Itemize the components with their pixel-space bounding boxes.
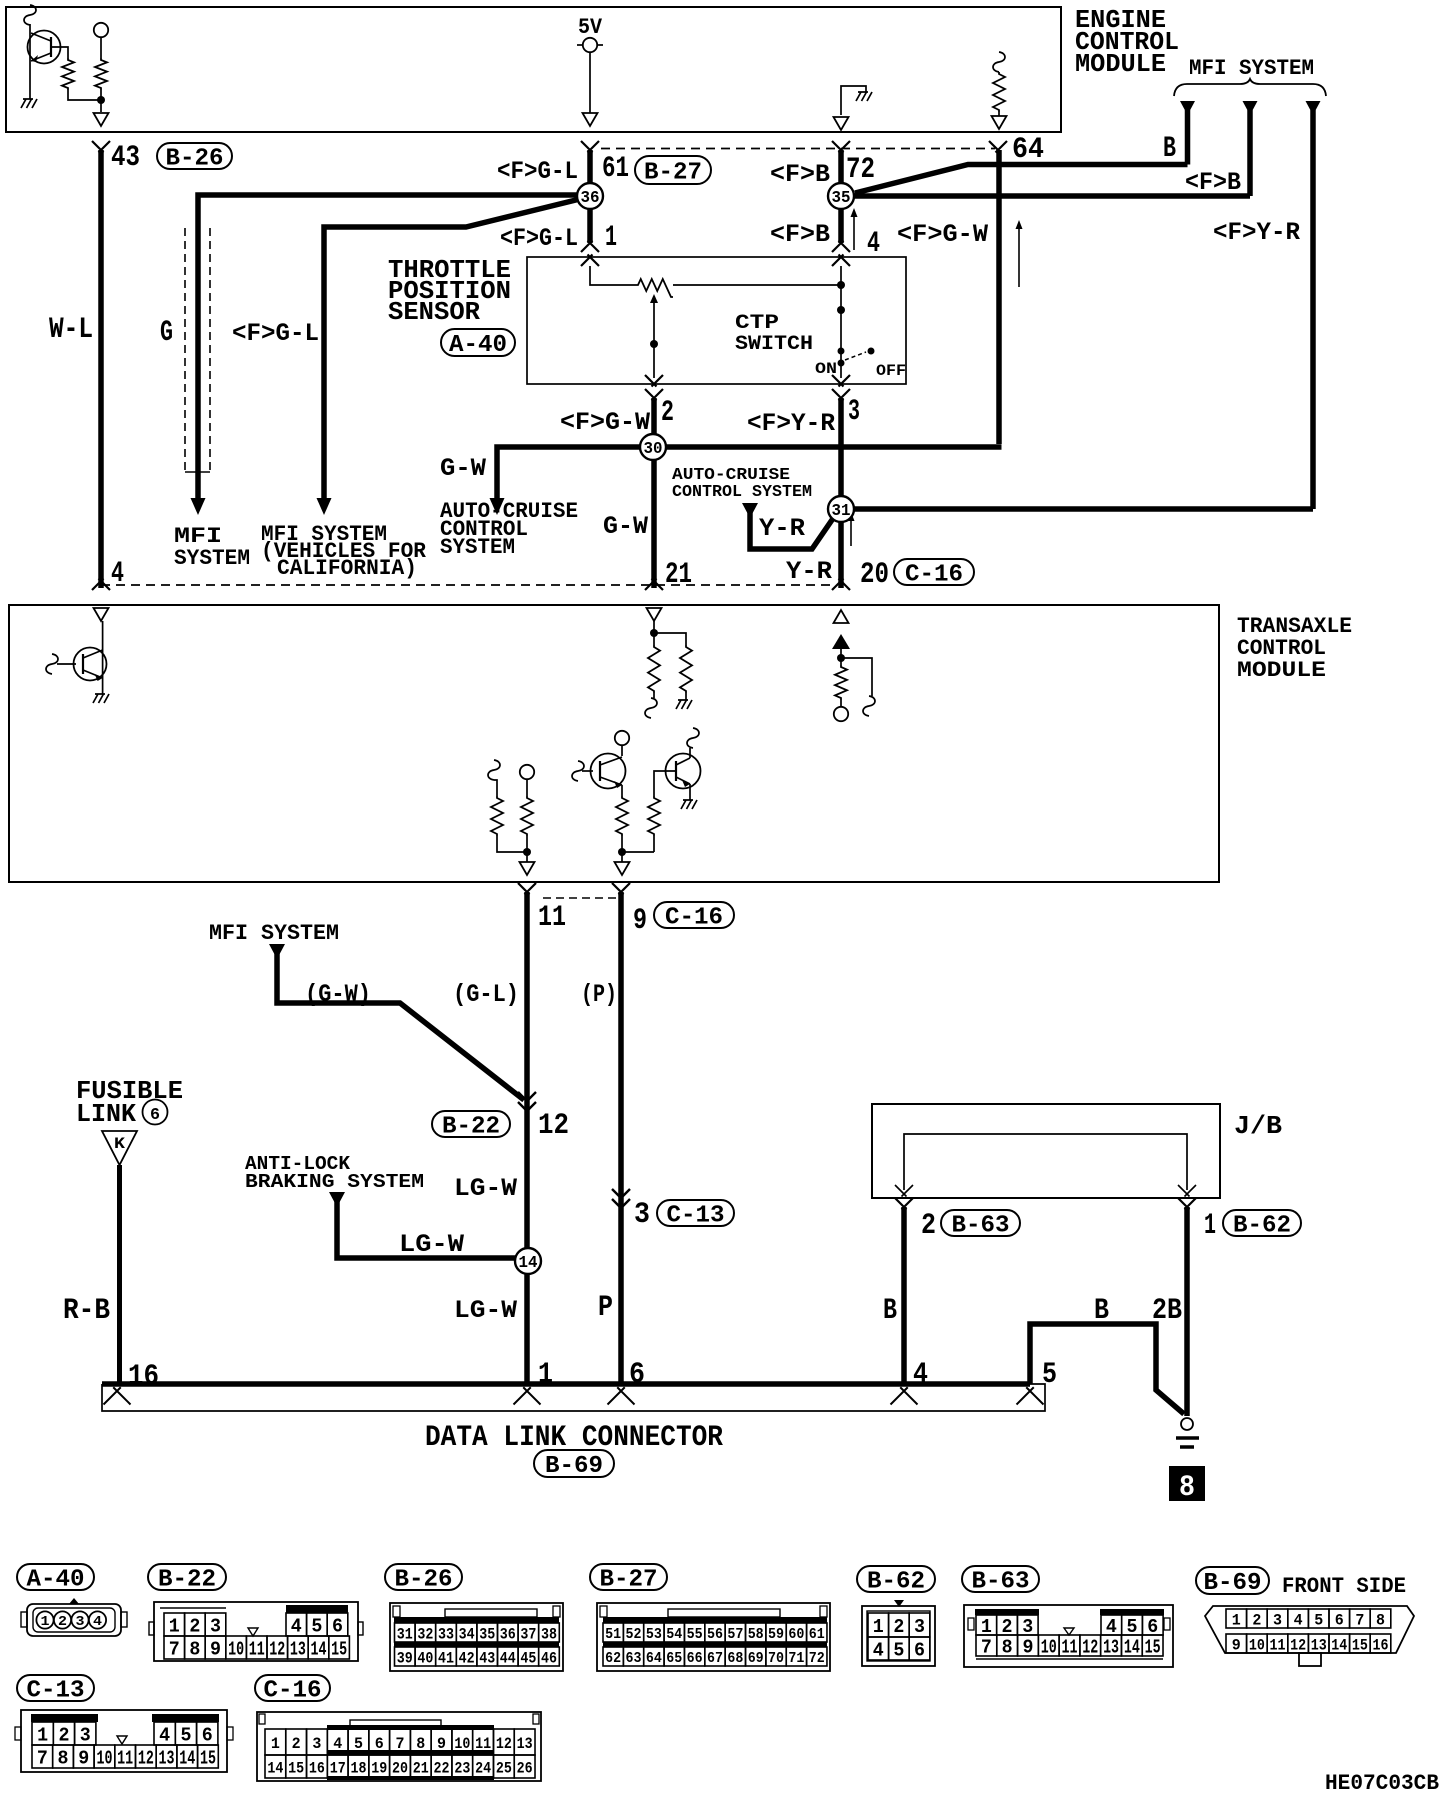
- svg-text:B-26: B-26: [166, 146, 224, 173]
- wire (P) pin 9 to DLC pin 6: [618, 892, 624, 1384]
- svg-text:14: 14: [267, 1759, 283, 1777]
- svg-text:24: 24: [475, 1759, 491, 1777]
- connector label B-26: [385, 1564, 462, 1594]
- svg-text:B-26: B-26: [395, 1567, 453, 1594]
- svg-text:36: 36: [500, 1625, 516, 1643]
- svg-text:1: 1: [37, 1724, 48, 1746]
- DLC pin 16 foot: [104, 1387, 131, 1404]
- svg-text:4: 4: [867, 227, 880, 261]
- auto-cruise control system label (small, junction31): [672, 466, 812, 502]
- pin 64 internal arrow: [992, 116, 1007, 129]
- svg-text:5: 5: [180, 1724, 191, 1746]
- connector C-13 pinout: [15, 1710, 233, 1772]
- svg-text:13: 13: [1311, 1636, 1327, 1654]
- transistor Q3 with terminal (TCM pin 9): [572, 731, 654, 862]
- resistor R3 (pin 64): [993, 52, 1005, 116]
- dashed connector boundary line (C-16 row): [101, 584, 836, 586]
- svg-text:68: 68: [727, 1650, 743, 1667]
- resistor pair with terminal (TCM pin 11): [488, 760, 534, 862]
- 5V supply: [577, 15, 603, 113]
- svg-text:4: 4: [93, 1614, 102, 1630]
- resistor R2 with terminal: [94, 23, 108, 112]
- svg-text:45: 45: [520, 1649, 536, 1667]
- svg-text:31: 31: [832, 502, 851, 521]
- svg-text:9: 9: [633, 904, 647, 938]
- direction arrow (pin4 wire): [853, 212, 855, 250]
- svg-text:5: 5: [1314, 1611, 1323, 1629]
- svg-text:<F>Y-R: <F>Y-R: [1213, 218, 1300, 247]
- connector C-16 pinout: [257, 1712, 541, 1781]
- MFI arrow 3 ((F)Y-R wire): [1306, 101, 1321, 509]
- MFI arrow 2 ((F)B wire): [1243, 101, 1258, 196]
- connector B-69 pinout (trapezoid): [1205, 1606, 1414, 1666]
- svg-text:9: 9: [78, 1747, 89, 1769]
- svg-text:7: 7: [169, 1638, 180, 1660]
- svg-text:11: 11: [1270, 1636, 1286, 1654]
- svg-text:13: 13: [517, 1735, 533, 1753]
- svg-text:11: 11: [249, 1638, 265, 1660]
- svg-text:3: 3: [210, 1615, 221, 1637]
- ECM internal ground (pin 72): [841, 86, 872, 115]
- svg-text:B: B: [1163, 132, 1176, 166]
- ABS arrow (LG-W branch): [329, 1192, 516, 1258]
- CTP SWITCH label: [735, 312, 813, 356]
- connector B-22 pinout: [149, 1602, 363, 1661]
- ground (pin21 resistor): [676, 700, 692, 709]
- connector label C-13: [17, 1675, 94, 1705]
- svg-text:2B: 2B: [1152, 1294, 1182, 1328]
- svg-text:61: 61: [809, 1626, 825, 1643]
- TPS label: [388, 255, 511, 327]
- svg-text:B-27: B-27: [644, 160, 702, 187]
- svg-text:7: 7: [981, 1636, 992, 1658]
- svg-text:7: 7: [37, 1747, 48, 1769]
- engine control module box: [6, 7, 1061, 132]
- svg-text:3: 3: [80, 1724, 91, 1746]
- svg-text:15: 15: [200, 1747, 216, 1769]
- wire B (MFI arrow 1 to junction 35): [855, 165, 1188, 194]
- svg-text:11: 11: [117, 1747, 133, 1769]
- junction 14: [515, 1248, 541, 1274]
- MFI SYSTEM destination label: [174, 524, 250, 571]
- svg-text:12: 12: [1290, 1636, 1306, 1654]
- connector B-26 pinout: [390, 1603, 563, 1671]
- pin 43 internal arrow: [94, 113, 109, 126]
- connector code C-16 (pin20): [894, 559, 974, 589]
- svg-text:14: 14: [1331, 1636, 1347, 1654]
- svg-text:31: 31: [397, 1625, 413, 1643]
- svg-text:14: 14: [519, 1254, 538, 1273]
- svg-text:SYSTEM: SYSTEM: [440, 535, 515, 560]
- ground (Q1 emitter): [21, 99, 37, 108]
- svg-text:W-L: W-L: [49, 313, 93, 347]
- svg-text:15: 15: [1145, 1636, 1161, 1658]
- direction arrow (pin64 wire): [1018, 224, 1020, 287]
- svg-text:62: 62: [605, 1650, 621, 1667]
- svg-text:1: 1: [873, 1616, 884, 1638]
- junction 30: [640, 434, 666, 460]
- pin 3 exit feet: [832, 375, 850, 387]
- pin 72: [832, 141, 875, 187]
- connector code B-69 (DLC): [534, 1450, 614, 1480]
- svg-text:4: 4: [159, 1724, 170, 1746]
- svg-text:3: 3: [312, 1735, 321, 1753]
- svg-text:52: 52: [626, 1626, 642, 1643]
- svg-text:30: 30: [644, 440, 663, 459]
- svg-text:12: 12: [138, 1747, 154, 1769]
- svg-text:SWITCH: SWITCH: [735, 333, 813, 356]
- svg-text:HE07C03CB: HE07C03CB: [1325, 1771, 1439, 1794]
- pin 43: [92, 141, 140, 175]
- ground reference number 8: [1169, 1466, 1205, 1505]
- svg-text:3: 3: [848, 395, 860, 429]
- pin 9 foot: [612, 883, 630, 895]
- connector B-63 pinout: [964, 1605, 1173, 1667]
- svg-text:<F>Y-R: <F>Y-R: [747, 409, 835, 438]
- TPS wiper arrow: [650, 294, 658, 378]
- svg-text:15: 15: [331, 1638, 347, 1660]
- connector B-27 pinout: [597, 1603, 830, 1671]
- arrow (F)G-L to MFI SYSTEM california: [317, 498, 332, 515]
- svg-text:P: P: [598, 1291, 613, 1325]
- wire (F)G-L (junction 36 diagonal to MFI california): [324, 198, 584, 498]
- resistor + terminal (TCM pin 20): [834, 649, 875, 721]
- svg-text:37: 37: [520, 1625, 536, 1643]
- svg-text:26: 26: [517, 1759, 533, 1777]
- svg-text:42: 42: [459, 1649, 475, 1667]
- Y-R arrow from auto-cruise control system: [742, 503, 834, 549]
- svg-text:1: 1: [538, 1358, 553, 1392]
- svg-text:8: 8: [1179, 1471, 1195, 1505]
- MFI arrow (G-W branch): [269, 944, 524, 1100]
- svg-text:3: 3: [634, 1198, 650, 1232]
- svg-text:6: 6: [914, 1639, 925, 1661]
- svg-text:1: 1: [41, 1614, 50, 1630]
- svg-text:2: 2: [661, 396, 674, 430]
- svg-text:8: 8: [1376, 1611, 1385, 1629]
- fusible link symbol K: [102, 1131, 137, 1165]
- wire (G-L) pin 11 to DLC pin 1: [524, 892, 530, 1384]
- svg-text:5V: 5V: [578, 15, 603, 40]
- svg-text:Y-R: Y-R: [786, 557, 832, 586]
- TCM pin 4 triangle: [94, 608, 109, 621]
- dashed option box around G wire: [185, 228, 210, 472]
- wire B (DLC pin 5 to ground): [1030, 1324, 1184, 1414]
- DLC box: [102, 1384, 1045, 1411]
- svg-text:71: 71: [788, 1650, 804, 1667]
- wire G-W branch (junction 30 to auto-cruise): [497, 447, 642, 498]
- svg-text:2: 2: [893, 1616, 904, 1638]
- DLC bus wire: [102, 1381, 1030, 1387]
- wire W-L (pin 43 to TCM pin 4): [98, 150, 104, 588]
- svg-text:10: 10: [96, 1747, 112, 1769]
- svg-text:36: 36: [581, 189, 600, 208]
- svg-text:1: 1: [1204, 1209, 1216, 1243]
- ground (Q2): [93, 694, 109, 703]
- TCM pin 9 triangle: [615, 862, 630, 875]
- direction arrow (pin20 wire): [850, 516, 852, 546]
- svg-text:63: 63: [626, 1650, 642, 1667]
- pin 72 internal arrow: [834, 117, 849, 130]
- svg-text:MFI SYSTEM: MFI SYSTEM: [209, 921, 339, 946]
- svg-text:B: B: [883, 1294, 897, 1328]
- transaxle control module box: [9, 605, 1219, 882]
- svg-text:56: 56: [707, 1626, 723, 1643]
- wire (F)Y-R (junction 31 to MFI arrow 3): [853, 506, 1313, 512]
- svg-text:8: 8: [58, 1747, 69, 1769]
- svg-text:11: 11: [538, 901, 566, 935]
- svg-text:14: 14: [179, 1747, 195, 1769]
- arrow G-W to auto-cruise: [490, 498, 505, 515]
- svg-text:B-62: B-62: [867, 1569, 925, 1596]
- svg-text:18: 18: [350, 1759, 366, 1777]
- svg-text:10: 10: [228, 1638, 244, 1660]
- svg-text:10: 10: [1041, 1636, 1057, 1658]
- svg-text:C-16: C-16: [665, 905, 723, 932]
- svg-text:2: 2: [58, 1614, 67, 1630]
- transistor Q4 (TCM): [648, 728, 701, 852]
- svg-text:OFF: OFF: [876, 362, 906, 380]
- connector code C-16 (pin9): [654, 902, 734, 932]
- pin 61: [581, 141, 629, 186]
- wire pin 61 to TPS pin 1: [587, 150, 593, 243]
- svg-text:2: 2: [58, 1724, 69, 1746]
- svg-text:CONTROL SYSTEM: CONTROL SYSTEM: [672, 483, 812, 502]
- J/B internal bus: [895, 1134, 1196, 1197]
- svg-text:23: 23: [454, 1759, 470, 1777]
- junction 31: [828, 496, 854, 522]
- svg-text:72: 72: [809, 1650, 825, 1667]
- J/B pin 1 foot: [1178, 1198, 1196, 1210]
- svg-text:1: 1: [1232, 1611, 1241, 1629]
- throttle position sensor box: [527, 257, 906, 384]
- TCM pin 11 triangle: [520, 862, 535, 875]
- svg-text:C-13: C-13: [27, 1678, 85, 1705]
- svg-text:44: 44: [500, 1649, 516, 1667]
- svg-text:43: 43: [479, 1649, 495, 1667]
- svg-text:<F>G-L: <F>G-L: [232, 319, 319, 348]
- connector code B-62: [1223, 1210, 1301, 1240]
- svg-text:46: 46: [541, 1649, 557, 1667]
- brace under MFI SYSTEM: [1174, 79, 1326, 96]
- svg-text:CALIFORNIA): CALIFORNIA): [277, 556, 417, 581]
- svg-text:BRAKING SYSTEM: BRAKING SYSTEM: [245, 1171, 424, 1193]
- svg-text:20: 20: [860, 558, 889, 592]
- svg-text:LG-W: LG-W: [454, 1174, 517, 1203]
- svg-text:7: 7: [1355, 1611, 1364, 1629]
- svg-text:55: 55: [687, 1626, 703, 1643]
- svg-text:22: 22: [434, 1759, 450, 1777]
- svg-text:FRONT SIDE: FRONT SIDE: [1282, 1574, 1406, 1599]
- svg-text:21: 21: [413, 1759, 429, 1777]
- pin 2 exit feet: [645, 375, 663, 387]
- svg-text:65: 65: [666, 1650, 682, 1667]
- anti-lock braking system label: [245, 1153, 424, 1193]
- svg-text:LG-W: LG-W: [454, 1296, 517, 1325]
- svg-text:5: 5: [311, 1615, 322, 1637]
- svg-text:5: 5: [893, 1639, 904, 1661]
- svg-text:8: 8: [189, 1638, 200, 1660]
- connector label B-62: [857, 1566, 935, 1596]
- svg-text:58: 58: [748, 1626, 764, 1643]
- svg-text:<F>G-L: <F>G-L: [500, 224, 578, 253]
- pin 20 wire end foot: [832, 579, 850, 591]
- DLC pin 1 foot: [514, 1387, 541, 1404]
- svg-text:B-27: B-27: [600, 1567, 658, 1594]
- svg-text:G-W: G-W: [603, 512, 648, 541]
- svg-text:G: G: [160, 316, 173, 350]
- svg-text:57: 57: [727, 1626, 743, 1643]
- svg-text:B-62: B-62: [1233, 1213, 1291, 1240]
- wire 2B (J/B pin1 to ground): [1184, 1207, 1190, 1416]
- DLC pin 6 foot: [608, 1387, 635, 1404]
- svg-text:3: 3: [914, 1616, 925, 1638]
- junction block J/B box: [872, 1104, 1220, 1198]
- svg-text:2: 2: [921, 1209, 936, 1243]
- svg-text:43: 43: [111, 141, 140, 175]
- CTP switch contacts: [837, 266, 875, 378]
- svg-text:(G-L): (G-L): [453, 980, 519, 1009]
- svg-text:13: 13: [159, 1747, 175, 1769]
- svg-text:2: 2: [292, 1735, 301, 1753]
- svg-text:14: 14: [1124, 1636, 1140, 1658]
- svg-text:A-40: A-40: [27, 1567, 85, 1594]
- wire R-B (fusible link to DLC pin 16): [117, 1165, 122, 1384]
- svg-text:MODULE: MODULE: [1237, 658, 1326, 683]
- MFI SYSTEM california destination label: [261, 522, 427, 581]
- svg-text:B-63: B-63: [952, 1213, 1010, 1240]
- svg-text:4: 4: [291, 1615, 302, 1637]
- TCM pin 21 triangle: [647, 608, 662, 621]
- svg-text:6: 6: [150, 1106, 160, 1125]
- svg-text:4: 4: [913, 1358, 928, 1392]
- connector code B-63: [941, 1210, 1020, 1240]
- engine control module label: [1075, 5, 1179, 79]
- svg-text:19: 19: [371, 1759, 387, 1777]
- svg-text:16: 16: [128, 1360, 159, 1394]
- resistor pair (TCM pin 21): [645, 621, 692, 718]
- connector code B-22 (pin12): [432, 1111, 510, 1141]
- svg-text:4: 4: [873, 1639, 884, 1661]
- svg-text:67: 67: [707, 1650, 723, 1667]
- svg-text:6: 6: [332, 1615, 343, 1637]
- svg-text:R-B: R-B: [63, 1294, 110, 1328]
- svg-text:LG-W: LG-W: [399, 1230, 464, 1259]
- svg-text:15: 15: [1352, 1636, 1368, 1654]
- pin 64: [989, 133, 1044, 167]
- svg-text:15: 15: [288, 1759, 304, 1777]
- pin 61 internal arrow: [583, 113, 598, 126]
- connector label B-27: [590, 1564, 667, 1594]
- svg-text:64: 64: [646, 1650, 662, 1667]
- DLC pin 5 foot: [1017, 1387, 1044, 1404]
- arrow G to MFI SYSTEM: [191, 498, 206, 515]
- svg-text:25: 25: [496, 1759, 512, 1777]
- svg-text:8: 8: [1002, 1636, 1013, 1658]
- transistor Q1 (ECM internal): [24, 5, 68, 99]
- svg-text:6: 6: [629, 1358, 645, 1392]
- transaxle control module label: [1237, 614, 1352, 683]
- connector label B-22: [148, 1564, 226, 1594]
- resistor R1 (Q1 base): [62, 58, 101, 100]
- connector label C-16: [255, 1675, 330, 1705]
- junction 35: [828, 183, 854, 209]
- svg-text:B-22: B-22: [442, 1114, 500, 1141]
- svg-text:66: 66: [687, 1650, 703, 1667]
- svg-text:C-13: C-13: [667, 1203, 725, 1230]
- svg-text:B-63: B-63: [972, 1569, 1030, 1596]
- svg-text:32: 32: [417, 1625, 433, 1643]
- svg-text:<F>B: <F>B: [1185, 168, 1241, 197]
- svg-text:<F>G-W: <F>G-W: [897, 220, 988, 249]
- DLC pin 4 foot: [891, 1387, 918, 1404]
- connector code B-26: [157, 143, 232, 173]
- svg-text:35: 35: [832, 189, 851, 208]
- svg-text:20: 20: [392, 1759, 408, 1777]
- wire CTP pin3 to junction 31 and down to TCM pin 20: [838, 398, 844, 588]
- MFI arrow 1 (B wire): [1180, 101, 1195, 165]
- svg-text:A-40: A-40: [449, 332, 507, 359]
- pin 21 wire end foot: [645, 579, 663, 591]
- svg-text:1: 1: [605, 221, 617, 255]
- svg-text:33: 33: [438, 1625, 454, 1643]
- wire (F)B (junction 35 to MFI arrow 2): [852, 193, 1250, 199]
- svg-text:B-69: B-69: [1204, 1570, 1262, 1597]
- svg-text:9: 9: [1232, 1636, 1241, 1654]
- TPS potentiometer: [590, 266, 841, 297]
- svg-text:B-69: B-69: [545, 1453, 603, 1480]
- svg-text:3: 3: [76, 1614, 85, 1630]
- pin 4 wire end foot: [92, 579, 110, 591]
- svg-text:12: 12: [538, 1109, 569, 1143]
- connector label A-40: [17, 1564, 94, 1594]
- svg-text:J/B: J/B: [1234, 1111, 1282, 1141]
- svg-text:1: 1: [169, 1615, 180, 1637]
- svg-text:9: 9: [1022, 1636, 1033, 1658]
- connector label B-63: [962, 1566, 1039, 1596]
- circled 6: [143, 1100, 168, 1126]
- small dashed segment between pins 11 and 9: [543, 897, 616, 899]
- pin 1 entry feet: [581, 241, 599, 253]
- svg-text:12: 12: [496, 1735, 512, 1753]
- svg-text:3: 3: [1273, 1611, 1282, 1629]
- wire pin 72 to CTP pin 4: [838, 150, 844, 243]
- svg-text:54: 54: [666, 1626, 682, 1643]
- transistor Q2 (TCM, W-L input): [46, 621, 107, 694]
- svg-text:16: 16: [309, 1759, 325, 1777]
- wire G (horizontal from junction 36): [198, 195, 578, 498]
- svg-text:2: 2: [1252, 1611, 1261, 1629]
- svg-text:5: 5: [1042, 1358, 1057, 1392]
- connector A-40 pinout: [21, 1598, 127, 1636]
- svg-text:C-16: C-16: [905, 562, 963, 589]
- svg-text:10: 10: [1249, 1636, 1265, 1654]
- svg-text:<F>G-L: <F>G-L: [497, 157, 578, 186]
- auto-cruise control system label (left): [440, 499, 578, 560]
- svg-text:B: B: [1094, 1294, 1109, 1328]
- fusible link label: [76, 1076, 183, 1129]
- svg-text:(P): (P): [581, 980, 617, 1009]
- wire pin64 to junction30 horizontal: [996, 150, 1002, 444]
- svg-text:LINK: LINK: [76, 1099, 136, 1129]
- chevrons into pin 12: [518, 1092, 536, 1111]
- svg-text:69: 69: [748, 1650, 764, 1667]
- svg-text:K: K: [114, 1135, 125, 1153]
- chevrons pin 3 C-13: [612, 1189, 630, 1208]
- wire B (J/B pin2 to DLC pin 4): [901, 1207, 907, 1384]
- svg-text:(G-W): (G-W): [305, 980, 371, 1009]
- svg-text:SENSOR: SENSOR: [388, 297, 480, 327]
